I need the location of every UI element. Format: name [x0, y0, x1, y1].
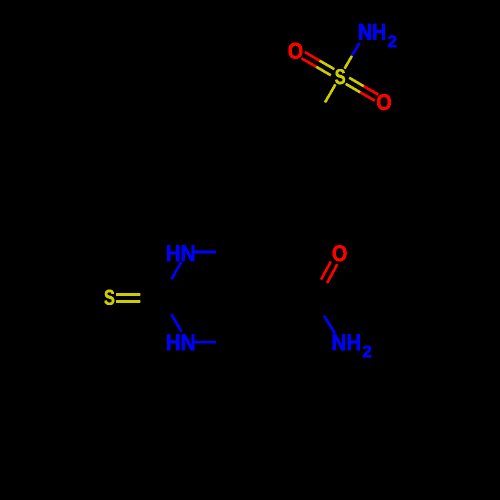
- bond S1-C(aryl) yellow half: [325, 84, 336, 102]
- atom O2 sulfonyl oxygen lower-right label: [377, 94, 391, 110]
- bond S1=O1 lower line (yellow half): [316, 67, 331, 76]
- bond N1-C6 (blue half): [194, 341, 216, 344]
- bond S1=O1 upper line (yellow half): [320, 61, 335, 69]
- atom N1 ring bottom HN label: [167, 335, 194, 350]
- bond N3-C2 (blue half): [171, 262, 181, 279]
- bond N3-C4 (blue half): [194, 251, 216, 254]
- bond S1=O2 upper line (red half): [364, 86, 379, 95]
- bond N1-C2 (blue half): [171, 314, 181, 332]
- bond S1=O1 upper line (red half): [305, 52, 320, 61]
- bond S1=O1 lower line (red half): [302, 58, 317, 67]
- bond C2=S3 upper line (yellow half): [116, 293, 140, 296]
- atom O3 amide oxygen label: [333, 245, 347, 261]
- bond S1=O2 upper line (yellow half): [349, 78, 364, 87]
- bond C7=O3 right line (red half): [327, 264, 337, 283]
- atom N3 ring top HN label: [167, 246, 194, 261]
- bond S1-N2 (yellow half): [345, 56, 353, 69]
- atom O1 sulfonyl oxygen top-left label: [289, 43, 303, 59]
- atom N2 sulfonamide NH2 label: [360, 24, 397, 47]
- bond C7=O3 left line (red half): [321, 261, 331, 279]
- bond C2=S3 lower line (yellow half): [116, 300, 140, 303]
- bond S1=O2 lower line (red half): [360, 92, 375, 100]
- bond C7-N4 (blue half): [324, 316, 335, 334]
- atom S3 thioxo sulfur label: [104, 290, 114, 305]
- atom N4 amide NH2 label: [333, 335, 371, 358]
- bond S1=O2 lower line (yellow half): [346, 84, 361, 93]
- atom S1 sulfonyl sulfur label: [335, 69, 345, 84]
- bond S1-N2 (blue half): [352, 43, 360, 56]
